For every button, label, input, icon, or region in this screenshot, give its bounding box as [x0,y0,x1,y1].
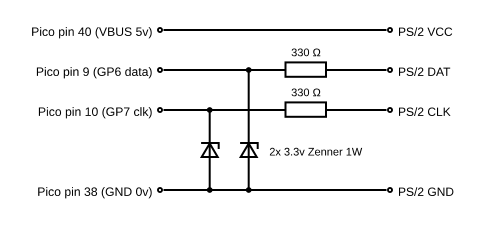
junction: clk net / D1 branch [207,107,213,113]
terminal: PS/2 GND [388,188,392,192]
node label: PS/2 DAT [399,67,450,76]
terminal: PS/2 DAT [388,68,392,72]
node label: PS/2 VCC [399,27,452,36]
wire: D1 branch, clk net down to GND net [209,110,211,190]
wire: R2 to PS/2 CLK [326,109,387,111]
terminal: Pico pin 10 [158,108,162,112]
node label: Pico pin 38 (GND 0v) [38,187,152,198]
wire: VBUS 5v net [164,29,387,31]
wire: data net, pin 9 to R1 [164,69,286,71]
resistor R1 [286,62,327,76]
terminal: PS/2 VCC [388,28,392,32]
junction: GND net / D2 branch [246,187,252,193]
node label: Pico pin 9 (GP6 data) [37,67,152,78]
value label: R2 330 ohm [292,89,321,97]
node label: PS/2 GND [399,187,453,196]
node label: Pico pin 40 (VBUS 5v) [32,27,152,38]
wire: D2 branch, data net down to GND net (crosses clk net) [248,70,250,190]
value label: R1 330 ohm [292,49,321,57]
value label: 2x 3.3v Zenner 1W [270,148,362,156]
terminal: PS/2 CLK [388,108,392,112]
terminal: Pico pin 40 [158,28,162,32]
node label: Pico pin 10 (GP7 clk) [39,107,152,118]
node label: PS/2 CLK [399,107,451,116]
zener diode D1 [201,142,219,157]
terminal: Pico pin 9 [158,68,162,72]
resistor R2 [286,102,327,116]
terminal: Pico pin 38 [158,188,162,192]
junction: GND net / D1 branch [207,187,213,193]
zener diode D2 [240,142,258,157]
junction: data net / D2 branch [246,67,252,73]
wire: clk net, pin 10 to R2 [164,109,286,111]
wire: GND net [164,189,387,191]
wire: R1 to PS/2 DAT [326,69,387,71]
